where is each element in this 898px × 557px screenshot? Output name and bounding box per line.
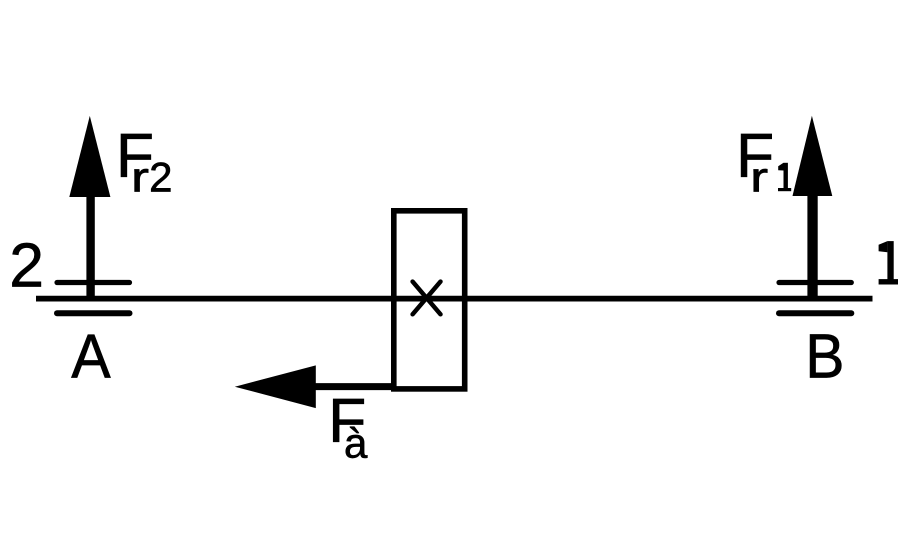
svg-text:B: B: [805, 321, 844, 391]
svg-text:r: r: [750, 153, 768, 200]
svg-text:à: à: [344, 420, 368, 467]
svg-text:2: 2: [9, 230, 44, 300]
svg-text:r: r: [131, 154, 149, 201]
svg-text:A: A: [71, 321, 111, 391]
svg-text:2: 2: [149, 154, 172, 201]
